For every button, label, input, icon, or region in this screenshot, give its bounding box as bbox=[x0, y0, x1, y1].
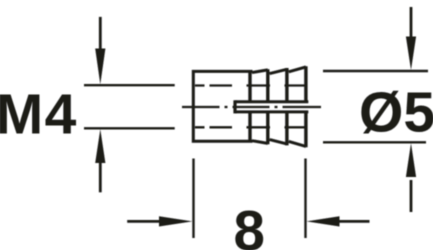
svg-text:Ø5: Ø5 bbox=[359, 81, 433, 145]
svg-text:8: 8 bbox=[234, 199, 265, 250]
svg-text:M4: M4 bbox=[0, 82, 78, 146]
